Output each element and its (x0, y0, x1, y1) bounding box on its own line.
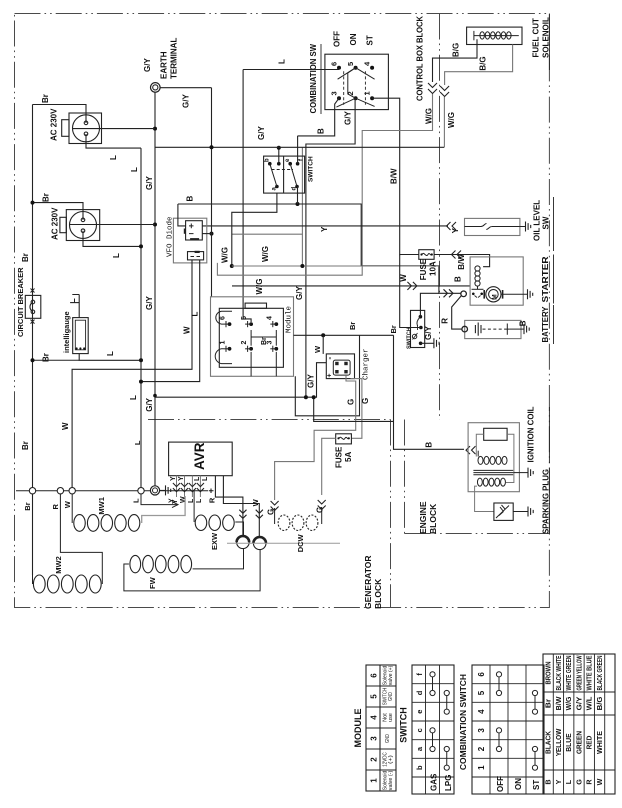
wire switch-a to W/G trunk (232, 193, 277, 266)
svg-text:W/G: W/G (424, 108, 433, 124)
winding MW2 (33, 575, 101, 593)
svg-text:CONTROL BOX BLOCK: CONTROL BOX BLOCK (416, 16, 425, 101)
label W/G 2 (447, 112, 456, 128)
svg-text:M: M (492, 294, 499, 299)
label B/G left (451, 43, 460, 57)
junction intelligauge-Br (31, 358, 35, 362)
label Charger (363, 348, 371, 380)
svg-text:2: 2 (241, 341, 248, 345)
label FUSE 5A (335, 446, 354, 468)
svg-text:use: use (388, 713, 394, 722)
label L ring top (133, 440, 142, 445)
label Br ring (23, 502, 32, 510)
label R ring (51, 504, 60, 510)
outlet AC230V no.1 socket circle (73, 115, 100, 142)
connector chevron B/W (452, 251, 462, 259)
label Br module (261, 337, 268, 345)
outlet AC230V no.2 socket circle (70, 212, 97, 239)
svg-text:YELLOW: YELLOW (554, 729, 563, 757)
svg-text:FUSE: FUSE (419, 258, 428, 280)
wire L ring to Y arrow (141, 494, 178, 508)
table color legend (543, 654, 615, 794)
svg-text:B/W: B/W (554, 696, 563, 710)
wire G/Y bus (155, 146, 444, 148)
svg-text:L: L (194, 476, 201, 481)
oil level switch ground (520, 222, 531, 232)
label G/Y earth terminal (143, 58, 152, 72)
label STARTER (541, 255, 554, 304)
label IGNITION COIL (527, 406, 550, 463)
svg-text:W/L: W/L (585, 696, 594, 710)
svg-text:B: B (425, 442, 434, 448)
wire primary left down (477, 451, 479, 457)
svg-text:Y: Y (169, 498, 176, 503)
svg-text:WHITE GREEN: WHITE GREEN (564, 656, 573, 691)
wire charger G/Y left (155, 363, 326, 398)
svg-text:L: L (130, 167, 139, 172)
intelligauge box (73, 318, 89, 354)
charger connector (333, 360, 350, 375)
connector chevron W-B (407, 282, 417, 290)
wire module bottom loop (295, 335, 359, 416)
label L outlet1 a (109, 155, 118, 160)
label B battery (519, 320, 528, 326)
fuel cut solenoid coil (474, 31, 519, 40)
svg-text:GAS: GAS (430, 773, 439, 791)
svg-text:Br: Br (21, 253, 30, 262)
svg-text:GREEN YELLOW: GREEN YELLOW (574, 655, 583, 690)
svg-text:5: 5 (346, 62, 355, 66)
svg-text:EXW: EXW (210, 532, 219, 550)
label W ring (63, 500, 72, 508)
wire W/G module drop (232, 147, 303, 234)
wire W/G drop to module (301, 234, 303, 266)
switch gas-lpg link dashed (272, 169, 294, 171)
wire B trunk vertical (211, 88, 213, 297)
svg-text:EARTH: EARTH (160, 51, 169, 79)
label Br bus 2 (389, 325, 398, 333)
label Br bus 1 (348, 322, 357, 330)
intelligauge probe (70, 295, 79, 318)
svg-text:R: R (208, 497, 217, 503)
ring Br (29, 488, 35, 494)
svg-text:BLACK: BLACK (544, 730, 553, 754)
wire diode pin2 to B trunk (202, 233, 211, 235)
svg-text:Y: Y (178, 476, 185, 481)
svg-text:BLACK WHITE: BLACK WHITE (554, 655, 563, 690)
starter box (470, 257, 523, 305)
wire Br outlet2 branch (33, 203, 84, 220)
label G dcw left (267, 509, 276, 515)
junction B-switchd (296, 202, 300, 206)
AVR R pin (215, 476, 243, 536)
svg-text:W: W (251, 498, 260, 506)
label W diode wire (183, 326, 192, 334)
circuit breaker CB box (25, 295, 41, 318)
fuse F2 5A box (336, 434, 352, 444)
wire R battery cable (452, 296, 462, 330)
label AC 230V no.1 (50, 108, 59, 141)
label W/G 234 line (261, 246, 270, 262)
module pin 1 (220, 341, 232, 352)
wire starter motor ground (501, 289, 533, 299)
label FUEL CUT SOLENOIL (532, 14, 551, 71)
combination switch position labels (333, 31, 375, 47)
wire switch-c up (278, 148, 280, 164)
outlet AC230V no.2 box (60, 210, 100, 241)
wire B branch from G/Y (314, 397, 394, 421)
wire outlet1 earth line (73, 128, 155, 130)
svg-text:W/G: W/G (261, 246, 270, 262)
border engine block bottom (horizontal dash-dot) (405, 533, 550, 535)
svg-text:B: B (519, 320, 528, 326)
svg-text:5: 5 (477, 690, 486, 695)
svg-text:Module: Module (286, 306, 294, 333)
label G/Y charger (307, 374, 316, 388)
svg-text:BLACK GREEN: BLACK GREEN (595, 656, 604, 691)
combination switch contact arms pin5 (338, 68, 375, 80)
label Br circuit breaker below (42, 353, 51, 362)
wire R ring to MW2 (60, 494, 102, 584)
table SWITCH (399, 665, 455, 794)
module pin 4 (267, 316, 279, 327)
svg-text:COMBINATION SWITCH: COMBINATION SWITCH (458, 674, 468, 770)
sparking plug ground (513, 507, 533, 517)
svg-text:SW: SW (541, 216, 550, 229)
svg-text:W/G: W/G (447, 112, 456, 128)
svg-text:W: W (183, 326, 192, 334)
label DCW (296, 533, 305, 552)
charger polarity (325, 357, 334, 378)
ring R (57, 488, 63, 494)
connector chevron B ignition (466, 446, 476, 454)
svg-text:GENERATOR: GENERATOR (363, 555, 373, 609)
wire charger W drop (322, 335, 324, 354)
starter solenoid coil (475, 266, 480, 286)
junction GY-212 (210, 145, 214, 149)
svg-text:GREEN: GREEN (574, 731, 583, 754)
svg-text:L: L (109, 155, 118, 160)
ignition coil wiring top (476, 434, 514, 482)
label R battery (440, 318, 449, 324)
svg-text:R: R (440, 318, 449, 324)
label SWITCH gas-lpg (308, 156, 315, 182)
junction B-GY397 (312, 395, 316, 399)
label Br outlet1 (41, 94, 50, 103)
ignition coil outer box (468, 423, 519, 492)
connector chevron G right (318, 500, 326, 510)
AVR plus pin (223, 476, 259, 537)
earth ring (150, 486, 159, 495)
svg-text:W: W (63, 500, 72, 508)
svg-text:SWITCH: SWITCH (308, 156, 315, 182)
svg-text:W: W (595, 778, 604, 785)
svg-text:e: e (415, 710, 424, 714)
connector chevron starter W (444, 289, 454, 297)
svg-text:G: G (316, 507, 325, 513)
svg-text:FUSE: FUSE (335, 446, 344, 468)
svg-text:FUEL CUT: FUEL CUT (532, 18, 541, 58)
label MW2 (54, 556, 63, 574)
border outer dashed frame (15, 14, 550, 608)
svg-text:W/G: W/G (564, 696, 573, 710)
border control box block (vertical dash-dot) (439, 14, 441, 421)
wire W bus (232, 285, 470, 287)
svg-text:SWITCH: SWITCH (407, 327, 413, 349)
svg-text:d: d (415, 690, 424, 695)
svg-text:Br: Br (42, 193, 51, 202)
svg-text:G/Y: G/Y (145, 397, 154, 411)
svg-text:ON: ON (349, 33, 358, 45)
wire FW right to ring1 (193, 549, 244, 569)
svg-text:B: B (317, 128, 326, 134)
svg-text:STARTER: STARTER (541, 256, 550, 302)
svg-text:ENGINE: ENGINE (418, 501, 428, 534)
wire G/Y earth to right (160, 87, 211, 89)
svg-text:ST: ST (532, 780, 541, 790)
wire W/G 1 down (217, 94, 432, 275)
wire charger G pins down (275, 375, 362, 500)
AVR pin chevrons (173, 483, 204, 492)
battery terminal circle (462, 326, 468, 332)
svg-text:B: B (186, 196, 195, 202)
module pin 5 (241, 316, 253, 327)
svg-text:W/G: W/G (221, 247, 230, 263)
VFO diode inner box bottom (188, 252, 204, 260)
svg-text:10A: 10A (429, 261, 438, 276)
label L ring (132, 498, 141, 503)
wire Br bus horizontal (294, 334, 394, 336)
wire W combination pin1 (372, 98, 400, 255)
label W bus (399, 274, 408, 282)
label Br outlet2 (42, 193, 51, 202)
label G/Y bus (257, 126, 266, 140)
wire G/Y earth trunk vertical (154, 92, 156, 490)
switch gas-lpg box (264, 156, 305, 193)
label MW1 (97, 497, 106, 515)
wire L outlet2 branch (83, 231, 141, 247)
combination switch bracket (348, 68, 356, 99)
svg-text:+: + (327, 373, 334, 377)
label B pin3 (317, 128, 326, 134)
label OIL LEVEL SW (533, 197, 554, 251)
svg-text:R: R (51, 504, 60, 510)
label W/G trunk (221, 247, 230, 263)
svg-text:6: 6 (477, 672, 486, 677)
wire B bus (178, 204, 461, 293)
border engine block left (vertical dash-dot) (404, 420, 406, 534)
module bail pin6 (216, 311, 232, 324)
switch gas-lpg contacts bottom (275, 185, 299, 189)
svg-text:Br: Br (348, 322, 357, 330)
svg-text:4: 4 (267, 316, 274, 320)
svg-text:1: 1 (477, 765, 486, 770)
label EARTH TERMINAL (160, 38, 179, 79)
label G/Y pin2 (344, 111, 353, 125)
svg-text:FW: FW (148, 576, 157, 589)
oil level switch contact (465, 224, 520, 230)
label L outlet2 (112, 253, 121, 258)
svg-text:SWITCH: SWITCH (399, 707, 409, 743)
outlet AC230V no.2 pins (81, 218, 85, 232)
battery ground (510, 324, 530, 334)
fuel cut solenoid box (467, 27, 522, 44)
label G/Y module top (295, 286, 304, 300)
label Br left lower (21, 253, 30, 262)
label Module (286, 306, 294, 333)
svg-text:G/Y: G/Y (145, 176, 154, 190)
svg-text:B/W: B/W (390, 168, 399, 184)
outlet AC230V no.1 pins (84, 121, 88, 136)
wire switch-f up (297, 136, 299, 164)
svg-text:L: L (112, 253, 121, 258)
wire Br outlet1 branch (33, 105, 87, 124)
junction G/Y outlet1 (153, 127, 157, 131)
svg-text:Br: Br (41, 94, 50, 103)
connector chevron Y oil level (447, 222, 457, 230)
svg-text:L: L (132, 498, 141, 503)
label L mid (129, 395, 138, 400)
svg-text:G: G (574, 779, 583, 785)
wire fuse10A left (400, 254, 419, 256)
svg-text:G/Y: G/Y (295, 286, 304, 300)
winding MW1 (74, 515, 140, 532)
switch gas-lpg labels (265, 158, 305, 191)
starter terminal circle (461, 291, 467, 297)
svg-text:c: c (415, 728, 424, 732)
label intelligauge (62, 311, 71, 353)
label G charger 2 (361, 398, 370, 404)
svg-text:OFF: OFF (496, 776, 505, 792)
outlet AC230V no.1 box (62, 113, 102, 144)
label EXW (210, 532, 219, 550)
chevron ring2 wire (256, 510, 263, 519)
junction Br outlet2 (31, 201, 35, 205)
chevron ring1 wire (239, 510, 246, 519)
svg-text:5: 5 (370, 694, 379, 699)
AVR box (169, 442, 233, 476)
svg-text:Y: Y (451, 227, 460, 233)
sparking plug box (494, 503, 513, 520)
label G/Y trunk low (145, 397, 154, 411)
label W left vert (61, 422, 70, 430)
label L combination (278, 59, 287, 64)
intelligauge pins (76, 347, 86, 349)
svg-text:WHITE: WHITE (595, 731, 604, 754)
label W/G 1 (424, 108, 433, 124)
svg-text:BLUE: BLUE (564, 733, 573, 752)
shaft line gray (227, 542, 340, 544)
junction charger W (321, 333, 325, 337)
wire module pin2 down (250, 352, 252, 376)
wire EXW right to ring1 (235, 522, 243, 536)
svg-text:BROWN: BROWN (544, 662, 553, 685)
wire secondary to plug (475, 486, 494, 511)
module inner connect (251, 330, 276, 346)
label G/Y trunk mid (145, 296, 154, 310)
svg-text:Y: Y (554, 779, 563, 784)
wire W/G 2 down (443, 97, 445, 147)
wire fuse5A left to DCW (322, 438, 336, 495)
wire W from diode (72, 260, 192, 490)
svg-text:5A: 5A (344, 452, 353, 462)
wire B to ignition coil (394, 335, 465, 449)
table MODULE (353, 665, 396, 791)
oil level switch box (465, 218, 520, 235)
label ENGINE BLOCK (418, 501, 438, 534)
switch gas-lpg blades (270, 164, 297, 187)
module outer box (211, 297, 294, 377)
wire switch center from fuse (400, 255, 421, 328)
connector chevron B/G-W/G 1 (428, 83, 437, 94)
earth ring ground (160, 485, 171, 495)
table COMBINATION SWITCH (458, 665, 544, 794)
wire B/G solenoid right (445, 45, 513, 86)
battery plates (475, 323, 509, 336)
combination switch pins row2 (330, 91, 375, 100)
wire L from diode (141, 260, 200, 382)
svg-text:OFF: OFF (333, 31, 342, 47)
label SWITCH engine stop (407, 327, 413, 349)
starter solenoid contact (472, 286, 484, 297)
svg-text:G/Y: G/Y (344, 111, 353, 125)
wire EXW left (193, 491, 195, 522)
wire intelligauge bottom (33, 354, 142, 361)
ring W (69, 488, 75, 494)
wire B/G solenoid left (433, 39, 478, 82)
svg-text:MW2: MW2 (54, 556, 63, 574)
svg-text:6: 6 (220, 316, 227, 320)
connector chevron G left (271, 501, 279, 511)
switch gas-lpg contacts top (268, 162, 299, 166)
wire Br trunk vertical (32, 105, 34, 576)
svg-text:G/Y: G/Y (182, 94, 191, 108)
connector chevron B/G-W/G 2 (440, 86, 449, 97)
module pin 3 (267, 341, 279, 352)
svg-text:valve (+): valve (+) (388, 665, 394, 685)
wire outlet2 earth line (70, 224, 155, 226)
brush ring 2 (253, 537, 266, 550)
label G/Y trunk upper (145, 176, 154, 190)
starter motor M (484, 287, 502, 302)
svg-text:6: 6 (330, 62, 339, 66)
svg-text:CIRCUIT BREAKER: CIRCUIT BREAKER (16, 267, 25, 337)
junction B-diode-vert (210, 232, 214, 236)
junction L diode (139, 380, 143, 384)
wire fuse10A right B/W (434, 255, 490, 267)
svg-text:G: G (361, 398, 370, 404)
label Y bus mid (320, 226, 329, 232)
switch engine stop contacts (412, 315, 422, 345)
ignition coil core (473, 470, 513, 474)
svg-text:Y: Y (320, 226, 329, 232)
svg-text:R: R (585, 779, 594, 785)
module pin 6 (220, 316, 232, 327)
earth terminal ring (151, 83, 161, 93)
ignition coil secondary (477, 478, 505, 486)
svg-text:G/Y: G/Y (424, 326, 433, 340)
label AC 230V no.2 (51, 207, 60, 240)
label Br near bottom (21, 441, 30, 450)
winding FW (130, 555, 192, 572)
label plus avr (206, 488, 216, 493)
junction W/G-302 (300, 264, 304, 268)
svg-text:L: L (191, 312, 200, 317)
svg-text:GND: GND (388, 692, 394, 701)
svg-text:ON: ON (514, 778, 523, 790)
svg-text:2: 2 (477, 746, 486, 751)
slip ring bus line (16, 490, 208, 492)
